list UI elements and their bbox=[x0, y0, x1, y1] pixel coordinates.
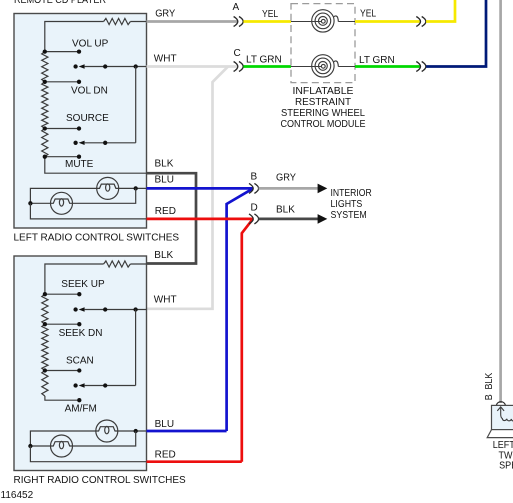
svg-text:SCAN: SCAN bbox=[66, 356, 94, 367]
connector: speaker terminal arc bbox=[494, 402, 507, 406]
wire: lamp top row bbox=[30, 188, 96, 203]
svg-text:BLU: BLU bbox=[155, 174, 174, 185]
svg-text:CONTROL MODULE: CONTROL MODULE bbox=[281, 119, 366, 130]
wire: RED riser from right box bbox=[242, 219, 253, 462]
switch contact: SCAN tap bbox=[45, 370, 79, 372]
svg-text:LIGHTS: LIGHTS bbox=[331, 199, 363, 210]
svg-text:D: D bbox=[251, 202, 258, 213]
wire: ladder bottom to BLK exit bbox=[45, 157, 147, 174]
speaker: left front tweeter box bbox=[492, 405, 513, 429]
svg-text:LT GRN: LT GRN bbox=[246, 54, 282, 65]
wire: GRY bbox=[147, 20, 238, 23]
svg-text:LEFT RADIO CONTROL SWITCHES: LEFT RADIO CONTROL SWITCHES bbox=[14, 233, 180, 244]
svg-text:MUTE: MUTE bbox=[65, 159, 94, 170]
svg-text:B: B bbox=[251, 171, 258, 182]
svg-text:RESTRAINT: RESTRAINT bbox=[295, 97, 351, 108]
switch wiper: SEEK (to WHT) bbox=[73, 307, 77, 311]
wire: resistor to box edge (GRY) bbox=[130, 21, 146, 23]
svg-text:BLU: BLU bbox=[155, 419, 174, 430]
wire: BLU riser from right box bbox=[227, 189, 253, 431]
wire: YEL to top edge bbox=[426, 0, 455, 22]
wire: WHT bbox=[147, 65, 238, 68]
switch wiper: VOL (to WHT) bbox=[73, 64, 77, 68]
arrow: to interior lights (bottom) bbox=[318, 214, 328, 224]
wire: BLU (left box) bbox=[147, 187, 254, 190]
svg-text:WHT: WHT bbox=[154, 294, 177, 305]
switch contact: VOL UP tap bbox=[45, 51, 79, 53]
junction: lamp top row (right box) bbox=[134, 429, 138, 433]
svg-text:C: C bbox=[234, 48, 241, 59]
wire: BLK link bbox=[147, 173, 197, 263]
coil: clockspring (YEL circuit) bbox=[319, 17, 328, 26]
svg-text:RIGHT RADIO CONTROL SWITCHES: RIGHT RADIO CONTROL SWITCHES bbox=[14, 475, 187, 486]
wire: RED (left box) bbox=[147, 218, 254, 221]
svg-text:BLK: BLK bbox=[155, 159, 174, 170]
resistor: ladder VOL DN-SOURCE bbox=[42, 82, 48, 129]
wire: RED stub (right box) bbox=[147, 460, 242, 463]
svg-text:SOURCE: SOURCE bbox=[66, 113, 109, 124]
switch wiper: SCAN/AM-FM bbox=[73, 383, 77, 387]
connector C bbox=[234, 62, 238, 72]
right radio control switches box bbox=[14, 256, 147, 471]
svg-text:GRY: GRY bbox=[276, 172, 296, 183]
svg-text:AM/FM: AM/FM bbox=[65, 403, 97, 414]
svg-text:REMOTE CD PLAYER: REMOTE CD PLAYER bbox=[14, 0, 106, 6]
svg-text:STEERING WHEEL: STEERING WHEEL bbox=[281, 108, 365, 119]
arrow: to interior lights (top) bbox=[318, 184, 328, 194]
svg-text:INTERIOR: INTERIOR bbox=[331, 188, 372, 199]
wire: module internal right (top) bbox=[338, 21, 355, 23]
svg-text:GRY: GRY bbox=[155, 9, 175, 20]
svg-text:VOL UP: VOL UP bbox=[72, 38, 109, 49]
svg-text:BLK: BLK bbox=[154, 250, 173, 261]
wire: WHT riser to right box bbox=[147, 67, 229, 309]
wire: LT GRN (right) bbox=[355, 65, 420, 68]
switch contact: MUTE tap bbox=[45, 156, 79, 158]
connector (LT GRN right) bbox=[416, 62, 420, 72]
lamp L3 (right switch illumination) bbox=[96, 420, 118, 442]
svg-text:VOL DN: VOL DN bbox=[71, 85, 108, 96]
wire: ladder top feed bbox=[45, 22, 104, 52]
connector B bbox=[249, 183, 253, 193]
resistor: ladder SEEK UP-SEEK DN bbox=[42, 294, 48, 324]
resistor: GRY feed resistor bbox=[104, 18, 131, 24]
svg-text:YEL: YEL bbox=[360, 8, 377, 19]
wire: YEL (left) bbox=[243, 20, 291, 23]
switch contact: SEEK DN tap bbox=[45, 323, 79, 325]
wire: GRY to interior lights bbox=[259, 187, 318, 190]
junction: lamp bottom row (right box) bbox=[28, 444, 32, 448]
resistor: ladder VOL UP-VOL DN bbox=[42, 52, 48, 82]
svg-text:LT GRN: LT GRN bbox=[359, 55, 395, 66]
wire: resistor to box edge (BLK) bbox=[130, 263, 146, 265]
junction: lamp top row bbox=[134, 186, 138, 190]
left radio control switches box bbox=[14, 14, 147, 229]
svg-text:B BLK: B BLK bbox=[484, 372, 495, 400]
wire: module internal left (top) bbox=[291, 21, 321, 23]
svg-text:RED: RED bbox=[155, 206, 176, 217]
wire: LT GRN (left) bbox=[243, 65, 291, 68]
resistor: ladder SOURCE-MUTE bbox=[42, 129, 48, 157]
svg-text:116452: 116452 bbox=[1, 490, 34, 501]
inflatable restraint module box (dashed) bbox=[291, 4, 355, 83]
wire: module internal right (bottom) bbox=[338, 66, 355, 68]
lamp L4 (right switch illumination) bbox=[51, 435, 73, 457]
svg-text:A: A bbox=[233, 2, 240, 13]
speaker: cone bbox=[487, 430, 513, 438]
svg-text:BLK: BLK bbox=[276, 204, 295, 215]
svg-text:SPEAKER: SPEAKER bbox=[499, 461, 513, 472]
wire: lamp bottom row bbox=[30, 202, 50, 204]
resistor: ladder SCAN-AM/FM bbox=[42, 371, 48, 397]
wire: DK BLU to top edge bbox=[426, 0, 486, 67]
svg-text:SYSTEM: SYSTEM bbox=[331, 210, 367, 221]
speaker: terminal arrow bbox=[497, 407, 504, 411]
connector (YEL right) bbox=[416, 17, 420, 27]
lamp L1 (left switch illumination) bbox=[97, 177, 119, 199]
wire: BLK to interior lights bbox=[259, 218, 318, 221]
wire: lamp row to RED exit (right box) bbox=[30, 446, 146, 462]
wire: lamp top row (right box) bbox=[30, 431, 95, 446]
wire: lamp row to RED exit bbox=[30, 203, 146, 219]
resistor: BLK feed resistor bbox=[104, 261, 131, 267]
wire: ladder to AM/FM tap bbox=[45, 396, 79, 400]
svg-text:WHT: WHT bbox=[154, 54, 177, 65]
wire: lamp bottom row (right box) bbox=[30, 445, 50, 447]
connector D bbox=[249, 214, 253, 224]
wire: BLU stub (right box) bbox=[147, 430, 227, 433]
speaker: voice coil bbox=[501, 415, 513, 422]
junction: lamp bottom row bbox=[28, 201, 32, 205]
coil: clockspring (LT GRN circuit) bbox=[319, 62, 328, 71]
wire: wiper common vertical (right box) bbox=[135, 310, 137, 386]
wire: YEL (right) bbox=[355, 20, 420, 23]
switch contact: SEEK UP tap bbox=[45, 293, 79, 295]
switch wiper: SOURCE/MUTE bbox=[73, 141, 77, 145]
svg-text:YEL: YEL bbox=[262, 9, 279, 20]
svg-text:SEEK UP: SEEK UP bbox=[61, 279, 105, 290]
svg-text:INFLATABLE: INFLATABLE bbox=[293, 86, 354, 97]
svg-text:RED: RED bbox=[155, 449, 176, 460]
switch contact: VOL DN tap bbox=[45, 81, 79, 83]
connector A bbox=[234, 17, 238, 27]
switch contact: AM/FM tap bbox=[77, 398, 81, 402]
svg-text:SEEK DN: SEEK DN bbox=[59, 328, 103, 339]
wire: wiper common vertical bbox=[135, 67, 137, 143]
wire: ladder top feed (right box) bbox=[45, 264, 104, 294]
resistor: ladder SEEK DN-SCAN bbox=[42, 324, 48, 370]
wire: module internal left (bottom) bbox=[291, 66, 321, 68]
wire: BLK to left front tweeter bbox=[499, 0, 502, 403]
switch contact: SOURCE tap bbox=[45, 128, 79, 130]
lamp L2 (left switch illumination) bbox=[51, 192, 73, 214]
